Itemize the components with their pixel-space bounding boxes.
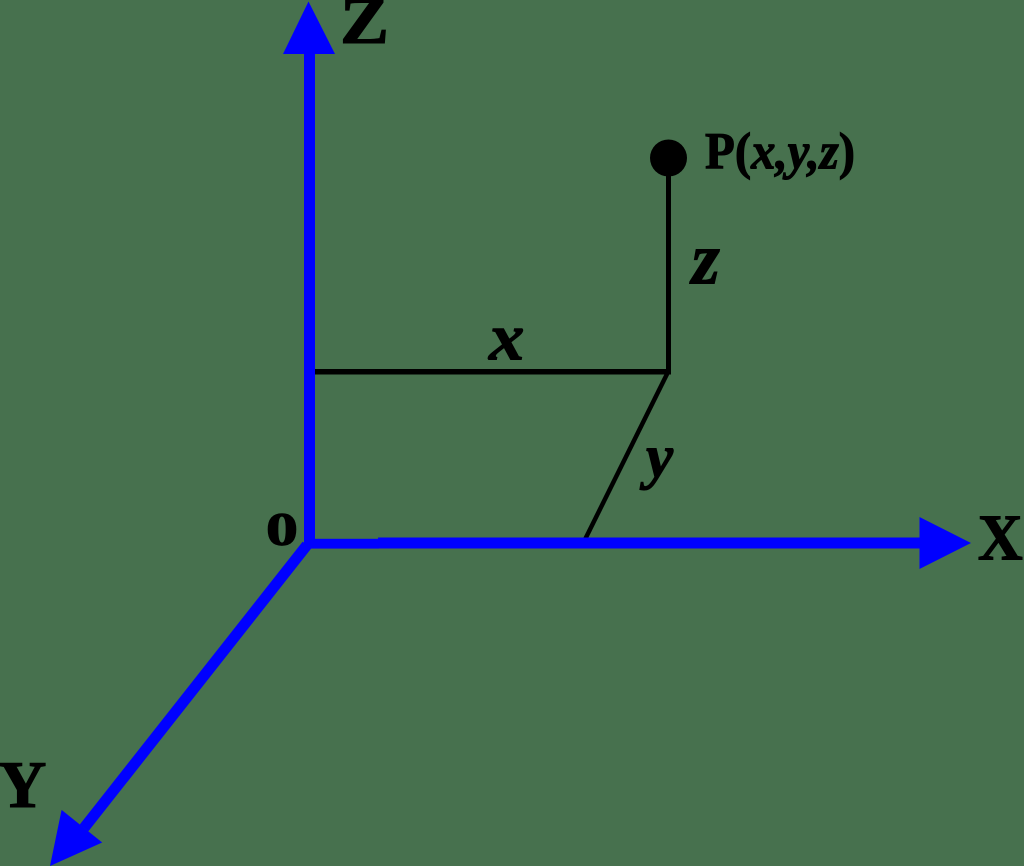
svg-text:x: x	[488, 301, 524, 375]
point P	[650, 140, 687, 177]
Y axis shaft	[84, 545, 307, 828]
line y (black diagonal from junction to X axis)	[582, 371, 672, 542]
svg-text:0: 0	[266, 504, 298, 556]
line z (black vertical from P down to junction)	[666, 170, 671, 374]
svg-text:P(x,y,z): P(x,y,z)	[705, 124, 855, 181]
svg-text:Z: Z	[340, 0, 389, 58]
line x (black horizontal from Z axis to junction)	[308, 369, 671, 375]
Z axis arrowhead	[283, 2, 335, 55]
svg-text:Y: Y	[0, 748, 46, 822]
svg-text:X: X	[978, 502, 1023, 575]
svg-text:z: z	[689, 219, 720, 301]
Z axis shaft	[304, 50, 315, 548]
X axis shaft (left segment)	[305, 539, 379, 549]
X axis shaft (right segment)	[378, 538, 920, 549]
Y axis arrowhead	[50, 810, 102, 866]
X axis arrowhead	[920, 517, 972, 569]
